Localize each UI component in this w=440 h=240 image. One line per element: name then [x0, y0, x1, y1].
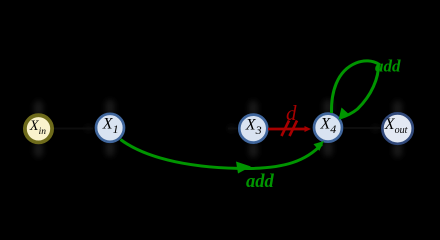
svg-text:add: add [246, 172, 275, 192]
svg-text:add: add [375, 57, 401, 76]
svg-text:d: d [286, 101, 297, 125]
